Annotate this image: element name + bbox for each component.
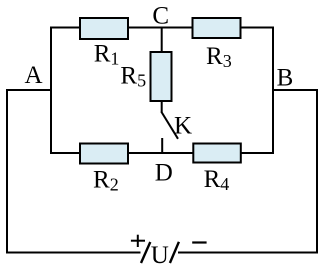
svg-text:K: K xyxy=(174,113,192,140)
svg-text:B: B xyxy=(277,65,294,92)
svg-text:D: D xyxy=(155,160,173,187)
svg-text:C: C xyxy=(152,3,169,30)
svg-text:A: A xyxy=(25,62,43,89)
svg-text:U: U xyxy=(151,242,169,269)
